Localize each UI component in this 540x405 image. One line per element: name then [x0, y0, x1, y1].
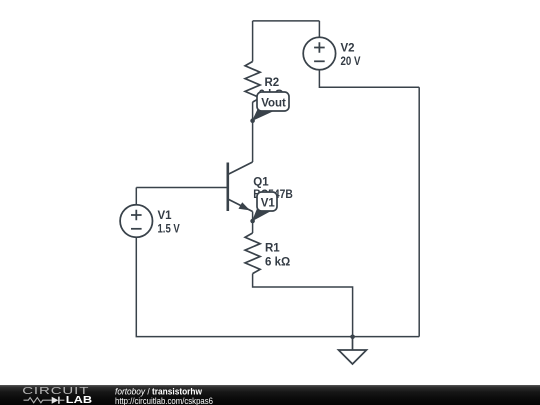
probe V1 [257, 192, 277, 211]
node dot emitter [250, 219, 255, 224]
svg-text:Q1: Q1 [253, 177, 269, 189]
wire R1 bottom to ground node [253, 274, 353, 337]
wire top rail [253, 20, 320, 22]
transistor Q1 [228, 162, 253, 221]
wire R2 bottom to collector [252, 102, 254, 162]
probe Vout [257, 92, 289, 111]
svg-text:LAB: LAB [66, 395, 92, 405]
wire emitter to R1 [252, 221, 254, 233]
voltage source V1 [120, 205, 152, 237]
svg-text:Vout: Vout [261, 97, 286, 109]
svg-text:V2: V2 [341, 43, 355, 55]
svg-text:1.5 V: 1.5 V [158, 223, 181, 235]
voltage source V2 [303, 37, 335, 69]
wire right rail [418, 87, 420, 336]
svg-text:R1: R1 [265, 242, 280, 254]
ground [339, 337, 367, 364]
svg-text:http://circuitlab.com/cskpas6: http://circuitlab.com/cskpas6 [115, 396, 213, 405]
wire V1 bottom to ground rail [136, 238, 419, 337]
node dot Vout [250, 118, 255, 123]
resistor R2 [245, 62, 260, 103]
wire V2 bottom lead [319, 70, 419, 87]
svg-text:R2: R2 [265, 77, 280, 89]
probe V1 tail [252, 205, 272, 221]
logo resistor squiggle and diode [24, 397, 65, 404]
svg-text:V1: V1 [158, 210, 173, 222]
node dot ground junction [350, 335, 355, 340]
wire V1 top lead [135, 188, 137, 205]
resistor R1 [245, 233, 260, 274]
wire left drop to R2 [252, 21, 254, 62]
probe Vout tail [252, 105, 275, 121]
svg-text:20 V: 20 V [341, 56, 361, 68]
wire V2 top lead [318, 21, 320, 37]
footer bar [0, 385, 540, 405]
svg-text:V1: V1 [261, 197, 276, 209]
logo diode triangle [52, 397, 59, 404]
wire base from V1 [136, 187, 228, 189]
svg-text:6 kΩ: 6 kΩ [265, 256, 290, 268]
